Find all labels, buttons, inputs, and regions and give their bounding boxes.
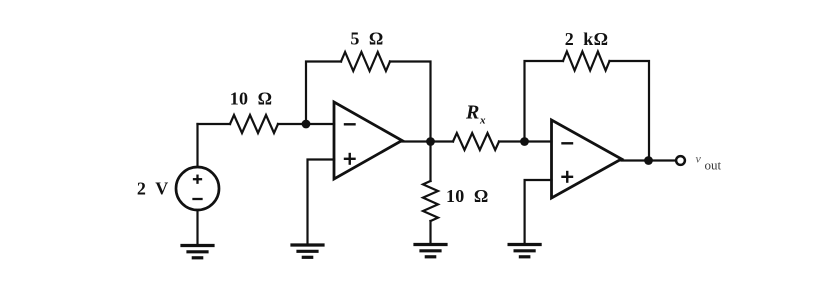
svg-text:x: x [479,115,486,127]
svg-text:5 Ω: 5 Ω [350,29,383,49]
svg-text:out: out [705,158,722,173]
svg-text:10 Ω: 10 Ω [446,186,489,206]
svg-text:2 V: 2 V [137,179,169,199]
svg-text:R: R [465,102,480,124]
svg-text:10 Ω: 10 Ω [230,89,273,109]
svg-text:v: v [696,152,702,166]
svg-text:2 kΩ: 2 kΩ [565,29,609,49]
